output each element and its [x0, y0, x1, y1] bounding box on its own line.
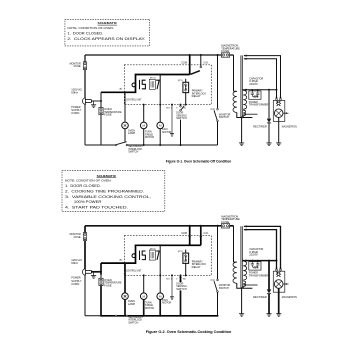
power transformer primary winding	[234, 261, 237, 263]
svg-text:1: 1	[171, 278, 172, 280]
relay blade - open	[200, 66, 202, 68]
relay contact - N.O. side	[200, 226, 202, 237]
relay blade - closed	[190, 244, 201, 246]
node - monitor switch tap on top rail	[217, 225, 219, 227]
wire - power cord to oven temperature fuse	[91, 271, 101, 273]
wire - monitor switch to bottom rail	[217, 292, 219, 316]
node - cord junction	[100, 100, 102, 102]
svg-text:RECTIFIER: RECTIFIER	[253, 125, 267, 128]
wire - magnetron filament line 1	[244, 226, 281, 270]
wire - left supply rail	[84, 55, 86, 62]
power transformer filament winding	[243, 281, 246, 286]
svg-text:MAGNETRON: MAGNETRON	[282, 125, 297, 128]
node - monitor switch tap on top rail	[217, 54, 219, 56]
power transformer filament winding	[243, 110, 246, 115]
fuse - magnetron temperature fuse	[221, 224, 229, 228]
ground - magnetron ground	[276, 314, 281, 317]
fuse - monitor fuse on left rail	[83, 233, 86, 241]
rectifier D1	[268, 90, 270, 119]
svg-text:CONTROL UNIT: CONTROL UNIT	[126, 98, 142, 102]
wire - fan motor feed through control unit	[159, 245, 161, 293]
relay RY2 box in control unit	[149, 250, 155, 260]
wire - top supply rail	[85, 54, 221, 56]
door sensing switch	[180, 274, 182, 276]
node - cord junction	[100, 271, 102, 273]
svg-text:N.O.: N.O.	[204, 61, 209, 64]
wire - fan motor to bottom rail	[159, 299, 161, 316]
svg-text:(RY2): (RY2)	[150, 78, 156, 80]
wire - left supply rail	[84, 226, 86, 233]
ground - rectifier ground	[266, 314, 271, 317]
wire - top rail to transformer primary	[233, 55, 235, 91]
ground - transformer ground	[241, 118, 243, 143]
fuse - oven temperature fuse	[99, 108, 103, 115]
svg-text:NOTE: CONDITION OF OVEN:: NOTE: CONDITION OF OVEN:	[65, 179, 112, 183]
ground - power cord chassis ground	[93, 272, 95, 276]
wire - live feed into control unit (bold)	[101, 75, 190, 93]
svg-text:OVENLAMP: OVENLAMP	[128, 300, 136, 306]
svg-text:RECTIFIER: RECTIFIER	[253, 296, 267, 299]
power supply plug	[82, 269, 85, 276]
control unit dashed enclosure	[124, 65, 211, 105]
svg-text:MAGNETRON: MAGNETRON	[282, 296, 297, 299]
svg-text:CONTROL UNIT: CONTROL UNIT	[126, 268, 142, 272]
display digit 7	[156, 80, 159, 89]
turntable motor	[143, 104, 145, 106]
ground - power cord chassis ground	[93, 101, 95, 105]
display digit 7	[156, 251, 159, 260]
wire - top supply rail	[85, 225, 221, 227]
svg-text:MONITORSWITCH: MONITORSWITCH	[219, 284, 231, 290]
turntable motor	[143, 274, 145, 276]
fan motor	[157, 122, 164, 129]
ground - transformer ground	[241, 288, 243, 313]
note box - schematic off condition	[65, 19, 150, 46]
wire - magnetron cathode to ground	[278, 288, 280, 313]
svg-text:1. DOOR CLOSED.: 1. DOOR CLOSED.	[67, 31, 103, 35]
node - oven lamp tap	[124, 262, 126, 264]
magnetron V1	[273, 100, 285, 121]
svg-text:1. DOOR CLOSED.: 1. DOOR CLOSED.	[65, 184, 101, 188]
svg-text:(RY2): (RY2)	[150, 248, 156, 250]
wire - oven temperature fuse branch	[100, 92, 102, 104]
svg-text:SCHEMATIC: SCHEMATIC	[97, 174, 117, 178]
svg-text:N.C: N.C	[211, 108, 215, 111]
relay contact - primary interlock relay COM side	[189, 55, 191, 75]
wire - door sensing switch to bottom rail	[180, 290, 182, 315]
wire - magnetron cathode to ground	[278, 118, 280, 143]
wire - oven lamp to interlock switch	[124, 299, 126, 316]
oven lamp	[124, 92, 126, 122]
wire - fuse to bottom rail	[100, 115, 102, 145]
secondary interlock switch	[115, 144, 117, 146]
node - oven lamp tap	[124, 91, 126, 93]
control unit dashed enclosure	[124, 236, 211, 276]
svg-text:NOTE: CONDITION OF OVEN:: NOTE: CONDITION OF OVEN:	[67, 26, 114, 30]
svg-text:2. CLOCK APPEARS ON DISPLAY.: 2. CLOCK APPEARS ON DISPLAY.	[67, 37, 146, 41]
svg-text:SCHEMATIC: SCHEMATIC	[98, 21, 118, 25]
wire - live feed into control unit (bold)	[101, 245, 190, 263]
relay RY2 box in control unit	[149, 79, 155, 89]
power transformer core	[240, 226, 242, 288]
relay contact - N.O. side	[200, 55, 202, 66]
wire - power cord to oven temperature fuse	[91, 100, 101, 102]
svg-text:1: 1	[171, 108, 172, 110]
monitor switch blade - open	[214, 110, 217, 120]
door sensing switch	[180, 104, 182, 106]
fuse - monitor fuse on left rail	[83, 62, 86, 70]
monitor switch branch	[217, 226, 219, 279]
wire - HV capacitor line	[242, 260, 276, 262]
node - transformer ground node	[241, 287, 243, 289]
wire - bottom return rail	[85, 144, 115, 146]
wire - left rail below plug	[84, 104, 86, 145]
wire - left rail below plug	[84, 275, 86, 316]
magnetron V1	[273, 271, 285, 292]
svg-text:2. COOKING TIME PROGRAMMED.: 2. COOKING TIME PROGRAMMED.	[65, 189, 144, 193]
power supply plug	[82, 98, 85, 105]
ground - magnetron ground	[276, 143, 281, 146]
svg-text:4. START PAD TOUCHED.: 4. START PAD TOUCHED.	[65, 206, 128, 210]
node - fan motor tap on control wire	[159, 244, 161, 246]
power transformer core	[240, 55, 242, 117]
display digits in control unit	[132, 251, 146, 260]
note box - schematic cooking condition	[62, 170, 165, 211]
svg-text:3. VARIABLE COOKING CONTROL,: 3. VARIABLE COOKING CONTROL,	[65, 195, 151, 199]
display digits in control unit	[132, 80, 146, 89]
rectifier D1	[268, 261, 270, 290]
wire - fan motor to bottom rail	[159, 129, 161, 146]
ground - rectifier ground	[266, 143, 271, 146]
wire - monitor switch to bottom rail	[217, 121, 219, 145]
wire - HV capacitor line	[242, 89, 276, 91]
wire - oven temperature fuse branch	[100, 263, 102, 275]
power transformer secondary winding	[243, 261, 246, 280]
wire - oven lamp to interlock switch	[124, 129, 126, 142]
svg-text:Figure O-2. Oven Schematic-Coo: Figure O-2. Oven Schematic-Cooking Condi…	[146, 330, 232, 334]
svg-text:N.O.: N.O.	[204, 232, 209, 235]
node - fan motor tap on control wire	[159, 74, 161, 76]
wire - turntable motor to bottom rail	[143, 299, 145, 316]
wire - magnetron filament line 2	[244, 230, 277, 270]
svg-text:(RY): (RY)	[178, 80, 183, 82]
node - transformer ground node	[241, 117, 243, 119]
ground - control unit chassis ground	[171, 104, 173, 106]
fan motor	[157, 293, 164, 300]
wire - turntable motor to bottom rail	[143, 129, 145, 146]
wire - fuse to bottom rail	[100, 286, 102, 316]
wire - door sensing switch to bottom rail	[180, 120, 182, 145]
svg-text:(RY): (RY)	[178, 251, 183, 253]
monitor switch blade - open	[214, 281, 217, 291]
monitor switch branch	[217, 55, 219, 108]
fuse - magnetron temperature fuse	[221, 53, 229, 57]
wire - top rail to transformer primary	[233, 226, 235, 262]
svg-text:Figure O-1. Oven Schematic-Off: Figure O-1. Oven Schematic-Off Condition	[166, 159, 232, 163]
svg-text:3: 3	[176, 108, 177, 110]
oven lamp	[124, 263, 126, 293]
svg-text:COM: COM	[181, 232, 187, 235]
svg-text:MONITORSWITCH: MONITORSWITCH	[219, 113, 231, 119]
wire - fan motor feed through control unit	[159, 75, 161, 123]
ground - control unit chassis ground	[171, 274, 173, 276]
secondary interlock switch	[115, 315, 117, 317]
relay contact - primary interlock relay COM side	[189, 226, 191, 246]
fuse - oven temperature fuse	[99, 278, 103, 285]
svg-text:COM: COM	[181, 61, 187, 64]
wire - bottom return rail	[85, 315, 115, 317]
power transformer primary winding	[234, 90, 237, 92]
wire - magnetron filament line 2	[244, 59, 277, 99]
svg-text:N.C: N.C	[211, 279, 215, 282]
svg-text:100% POWER: 100% POWER	[74, 200, 102, 204]
svg-text:3: 3	[176, 278, 177, 280]
svg-text:OVENLAMP: OVENLAMP	[128, 129, 136, 135]
wire - magnetron filament line 1	[244, 56, 281, 100]
power transformer secondary winding	[243, 90, 247, 109]
